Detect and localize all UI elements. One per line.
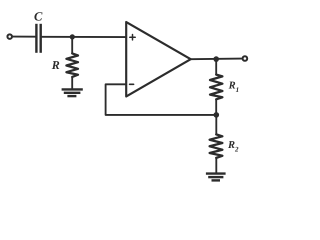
minus input marker (130, 83, 134, 85)
node B junction dot (214, 112, 220, 118)
ground (R2) (206, 174, 226, 181)
wire R1 to node B (215, 99, 217, 115)
svg-text:R: R (51, 58, 60, 72)
resistor R1 (210, 75, 222, 100)
op-amp U1 (126, 22, 191, 97)
output terminal (243, 56, 248, 61)
input terminal (7, 34, 12, 39)
wire input to capacitor (13, 36, 36, 38)
wire output node to R1 (215, 59, 217, 75)
svg-text:R2: R2 (227, 140, 239, 154)
output wire (191, 58, 242, 61)
plus input marker (130, 35, 135, 40)
wire R2 to ground (215, 158, 217, 173)
output node junction dot (213, 56, 219, 62)
wire node B to R2 (215, 115, 217, 134)
svg-text:R1: R1 (228, 81, 240, 95)
node junction dot A (70, 34, 75, 39)
resistor R2 (210, 134, 223, 158)
wire capacitor to op-amp (42, 36, 126, 38)
svg-text:C: C (34, 10, 43, 24)
feedback wire from minus input (106, 84, 217, 115)
wire node A down to R (71, 37, 73, 54)
capacitor C (36, 24, 40, 53)
wire R to ground (71, 77, 73, 88)
resistor R (66, 53, 78, 77)
ground (R) (62, 89, 83, 96)
